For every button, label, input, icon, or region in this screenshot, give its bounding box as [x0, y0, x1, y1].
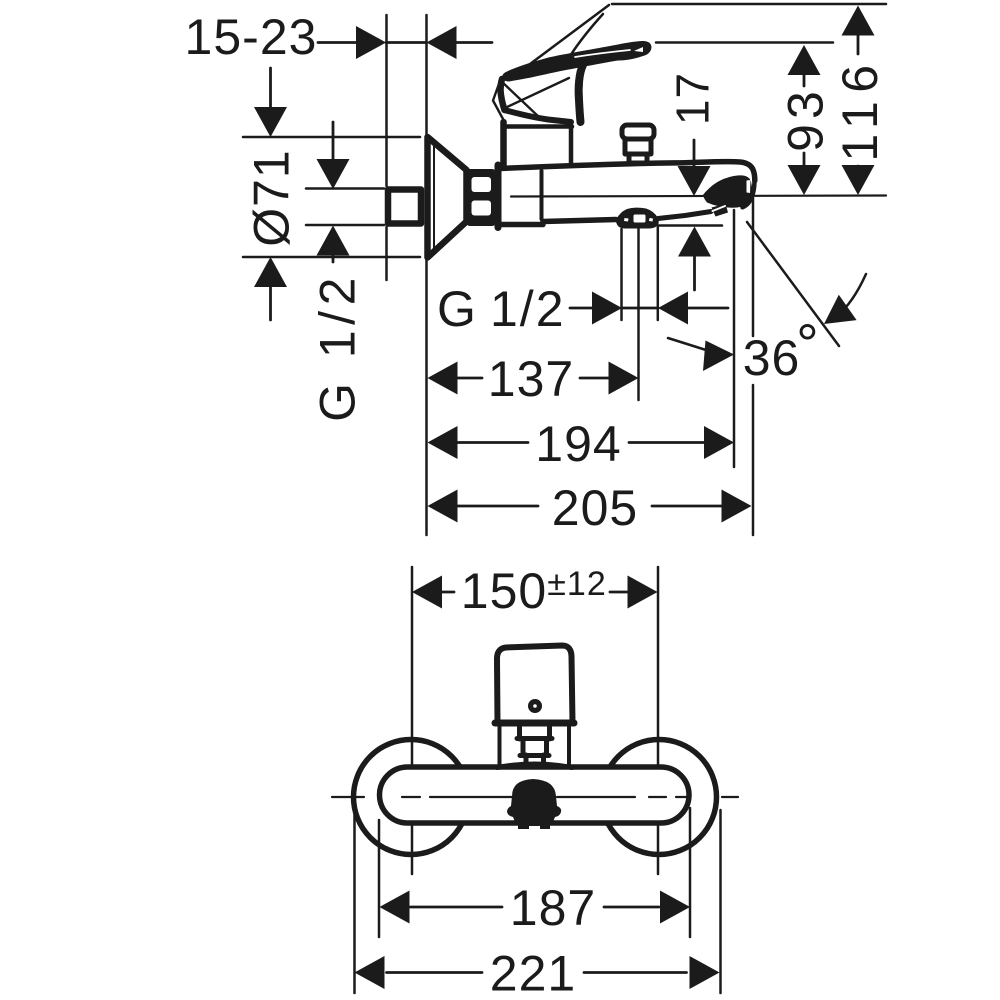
- shower outlet blob: [616, 208, 659, 229]
- 137 extension line: [637, 229, 640, 400]
- 150 extension lines: [412, 567, 658, 874]
- svg-text:G: G: [437, 281, 477, 337]
- 187 extension lines: [379, 808, 690, 937]
- G 1/2 left dim line with arrows: [332, 122, 335, 262]
- dimension 150 dim line and arrows: [441, 591, 629, 594]
- 36 degree leader curve and arrow: [668, 338, 706, 350]
- cartridge housing right edge: [569, 128, 574, 165]
- pill top arch under handle: [497, 764, 572, 768]
- body top edge and spout outer curve: [499, 162, 755, 181]
- dimension Ø71 bottom reference line: [243, 256, 420, 259]
- lever rest reference line: [656, 41, 833, 44]
- dimension 93 dim line and arrows: [803, 60, 806, 190]
- aerator seam: [713, 206, 726, 211]
- handle front view: [497, 646, 573, 723]
- lever blade: [502, 41, 652, 82]
- body bottom edge right of blob: [658, 212, 711, 219]
- lever facet line B: [505, 78, 569, 108]
- right flange circle: [602, 740, 717, 855]
- svg-text:150: 150: [461, 563, 547, 619]
- dimension 15-23 left-pointing arrow: [427, 26, 457, 59]
- nipple top reference line: [306, 187, 384, 190]
- svg-text:1/2: 1/2: [490, 281, 566, 337]
- dimension 15-23 right-pointing arrow: [356, 26, 386, 59]
- flange inner rim line: [433, 141, 435, 253]
- lever blade tip wedge: [634, 47, 643, 52]
- body left cap: [495, 165, 502, 228]
- 194 extension line: [733, 210, 736, 467]
- dimension 15-23 dim line: [318, 41, 492, 44]
- svg-text:116: 116: [832, 56, 888, 161]
- nipple bottom reference line: [306, 224, 384, 227]
- G 1/2 extension lines: [622, 227, 658, 320]
- knurled connector: [466, 169, 496, 226]
- lever raised projection line 2: [570, 14, 603, 56]
- handle neck tier 3: [526, 755, 544, 763]
- handle bottom bar: [495, 720, 574, 727]
- lever blade slit: [575, 50, 630, 57]
- handle skirt sides: [500, 727, 570, 764]
- dimension 205 dim line and arrows: [457, 505, 723, 508]
- svg-text:194: 194: [535, 416, 621, 472]
- lever chin: [505, 110, 572, 122]
- centerline: [332, 796, 738, 798]
- 205 extension line: [752, 197, 755, 535]
- spout outlet notch: [747, 180, 751, 193]
- body joint line: [540, 171, 544, 219]
- svg-text:36: 36: [743, 330, 801, 386]
- dimension Ø71 dim line with arrows: [269, 68, 272, 320]
- faucet body pill: [380, 767, 690, 823]
- handle neck tier 1: [517, 727, 552, 739]
- lever corner facet: [493, 81, 503, 119]
- dimension 116 dim line and arrows: [857, 20, 860, 190]
- G 1/2 mid dim line and arrows: [570, 307, 728, 310]
- spout bottom reference line: [658, 224, 722, 227]
- svg-text:187: 187: [510, 880, 596, 936]
- body bottom edge: [499, 220, 616, 225]
- dimension 17 dim line and arrows: [693, 140, 696, 290]
- svg-text:°: °: [796, 312, 819, 375]
- dimension 187 dim line and arrows: [411, 906, 660, 909]
- handle neck tier 2: [520, 739, 549, 756]
- body axis line: [511, 196, 886, 197]
- svg-text:221: 221: [490, 946, 576, 1000]
- lever facet line A: [501, 81, 540, 118]
- aerator bump: [712, 204, 729, 217]
- cartridge housing top edge: [503, 124, 572, 129]
- top reference line (lever raised): [612, 3, 886, 6]
- diverter knob: [622, 125, 654, 139]
- dimension 194 dim line and arrows: [457, 441, 706, 444]
- svg-text:17: 17: [667, 72, 719, 125]
- 221 extension lines: [355, 810, 721, 993]
- dimension 137 dim line and arrows: [457, 377, 610, 380]
- lever left front edge: [501, 79, 505, 110]
- cartridge housing left edge: [500, 122, 507, 166]
- lever raised projection line 1: [522, 5, 609, 70]
- 36 degree line: [747, 222, 839, 346]
- dimension 221 dim line and arrows: [387, 971, 687, 974]
- svg-text:±12: ±12: [547, 565, 606, 603]
- spout bottom wall crescent: [703, 175, 752, 207]
- left flange circle: [354, 740, 469, 855]
- lever neck: [579, 65, 583, 122]
- flange face extension line: [425, 15, 428, 535]
- dimension Ø71 top reference line: [243, 136, 420, 139]
- aerator front view: [507, 779, 561, 826]
- 36 degree arc arrow: [836, 274, 866, 317]
- handle dot: [528, 699, 542, 713]
- svg-text:G 1/2: G 1/2: [310, 272, 366, 422]
- spout outer lower edge: [743, 180, 755, 207]
- svg-text:93: 93: [778, 86, 834, 152]
- wall line: [385, 15, 388, 280]
- svg-text:15-23: 15-23: [185, 9, 318, 65]
- svg-text:137: 137: [488, 351, 574, 407]
- flange cone: [428, 137, 467, 258]
- svg-text:Ø71: Ø71: [244, 149, 300, 247]
- supply nipple: [388, 190, 421, 224]
- svg-text:205: 205: [552, 480, 638, 536]
